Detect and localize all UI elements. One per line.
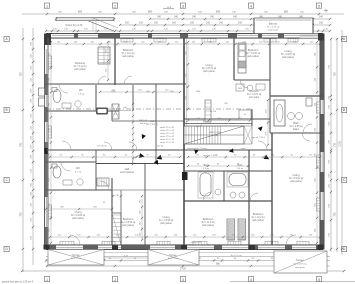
svg-text:Sn = 19.63 sq: Sn = 19.63 sq <box>71 215 86 217</box>
svg-text:2.9 sq: 2.9 sq <box>78 94 85 96</box>
svg-text:hall: hall <box>123 107 127 109</box>
svg-text:4: 4 <box>250 278 252 282</box>
svg-text:park parket: park parket <box>122 224 134 227</box>
svg-text:1: 1 <box>46 278 48 282</box>
svg-text:Sn = 14.07 sq: Sn = 14.07 sq <box>247 94 262 96</box>
svg-text:Sn = 5.12 sq: Sn = 5.12 sq <box>74 66 88 68</box>
svg-text:Sn = 4.55 sq: Sn = 4.55 sq <box>290 126 304 128</box>
svg-text:Bedroom: Bedroom <box>203 217 214 221</box>
svg-text:gres paint: gres paint <box>249 96 259 99</box>
svg-text:700: 700 <box>19 142 22 147</box>
svg-text:90 210: 90 210 <box>210 111 217 113</box>
svg-text:160: 160 <box>238 21 243 24</box>
svg-text:park parket: park parket <box>122 55 134 58</box>
svg-text:700: 700 <box>19 212 22 217</box>
svg-text:park parket: park parket <box>72 217 84 220</box>
svg-text:WM 5.04: WM 5.04 <box>139 120 148 122</box>
svg-text:park parket: park parket <box>203 70 215 73</box>
svg-text:Hall: Hall <box>125 167 130 171</box>
svg-text:Bedroom: Bedroom <box>253 212 264 216</box>
svg-text:700: 700 <box>334 142 337 147</box>
svg-text:Sn = 4.25 sq: Sn = 4.25 sq <box>267 27 280 29</box>
svg-text:Living: Living <box>206 63 213 67</box>
svg-text:Balcony: Balcony <box>269 23 278 26</box>
svg-text:park parket: park parket <box>252 219 264 222</box>
svg-text:340: 340 <box>319 15 324 18</box>
svg-text:stroke 17.5 x 29: stroke 17.5 x 29 <box>160 135 175 138</box>
svg-text:park parket: park parket <box>247 55 259 58</box>
svg-text:Sn = 11.75 sq: Sn = 11.75 sq <box>294 264 308 266</box>
svg-text:2100: 2100 <box>339 141 342 147</box>
svg-text:120 60: 120 60 <box>157 146 164 148</box>
svg-text:B: B <box>343 108 345 112</box>
svg-text:WM: WM <box>238 88 242 90</box>
svg-text:stroke 17.5 x 29: stroke 17.5 x 29 <box>160 126 175 129</box>
svg-text:Hall +1.46: Hall +1.46 <box>191 242 202 244</box>
svg-text:park parket: park parket <box>202 224 214 227</box>
svg-text:Bedroom: Bedroom <box>123 48 134 52</box>
svg-text:Sn = 12.97 sq: Sn = 12.97 sq <box>246 53 261 55</box>
svg-text:Sn = 7.3 sq: Sn = 7.3 sq <box>168 258 179 260</box>
svg-text:5: 5 <box>318 4 320 8</box>
svg-text:160: 160 <box>206 21 211 24</box>
svg-text:340: 340 <box>157 15 162 18</box>
svg-text:Living: Living <box>163 215 170 219</box>
svg-text:balustrade fin. 70 max: balustrade fin. 70 max <box>187 147 207 150</box>
svg-text:700: 700 <box>334 212 337 217</box>
svg-text:Kitchen: Kitchen <box>250 89 259 93</box>
svg-text:700: 700 <box>19 72 22 77</box>
svg-text:Sn = 4.1 sq: Sn = 4.1 sq <box>146 124 158 126</box>
svg-text:680: 680 <box>148 9 153 13</box>
svg-text:340: 340 <box>233 15 238 18</box>
svg-text:a 1: a 1 <box>167 5 171 9</box>
svg-text:Sn = 12.4 sq: Sn = 12.4 sq <box>122 53 136 55</box>
svg-text:90 210 90: 90 210 90 <box>98 146 108 148</box>
svg-text:Sn = 7.2 sq: Sn = 7.2 sq <box>71 258 82 260</box>
svg-text:160: 160 <box>190 21 195 24</box>
svg-text:WC: WC <box>79 89 83 92</box>
svg-text:340: 340 <box>210 15 215 18</box>
svg-text:3.4 sq: 3.4 sq <box>237 168 244 170</box>
svg-text:Sn = 11.9 sq: Sn = 11.9 sq <box>202 222 216 224</box>
svg-text:340: 340 <box>174 15 179 18</box>
svg-text:Living: Living <box>285 49 292 53</box>
svg-text:Ramp Sn +0.46: Ramp Sn +0.46 <box>66 24 83 27</box>
svg-text:700: 700 <box>334 72 337 77</box>
svg-text:faians: faians <box>293 129 300 131</box>
svg-text:Living: Living <box>293 173 300 177</box>
svg-text:WC: WC <box>76 167 80 170</box>
svg-text:park parket: park parket <box>290 180 302 183</box>
svg-text:+1.46: +1.46 <box>212 135 218 137</box>
svg-text:680: 680 <box>284 9 289 13</box>
svg-text:5: 5 <box>318 278 320 282</box>
svg-text:Sn = 19.91 sq: Sn = 19.91 sq <box>289 178 304 180</box>
svg-text:Dressing: Dressing <box>75 61 86 65</box>
svg-text:160: 160 <box>139 21 144 24</box>
svg-text:4: 4 <box>250 4 252 8</box>
svg-text:MID FLOOR: MID FLOOR <box>209 132 222 134</box>
svg-text:stroke 17.5 x 29: stroke 17.5 x 29 <box>160 132 175 135</box>
svg-text:B: B <box>6 108 8 112</box>
svg-text:160: 160 <box>219 21 224 24</box>
svg-text:160: 160 <box>172 21 177 24</box>
svg-text:160: 160 <box>154 21 159 24</box>
svg-text:2.9 sq: 2.9 sq <box>203 168 210 170</box>
svg-text:Sn = 5.1 sq: Sn = 5.1 sq <box>231 255 242 257</box>
svg-text:Bedroom: Bedroom <box>123 217 134 221</box>
svg-text:Terrace: Terrace <box>296 259 304 262</box>
svg-text:park parket: park parket <box>160 222 172 225</box>
svg-text:Sn = 24.07 sq: Sn = 24.07 sq <box>281 54 296 56</box>
svg-text:160: 160 <box>319 21 324 24</box>
svg-text:Terrace: Terrace <box>169 254 177 257</box>
svg-text:680: 680 <box>216 9 221 13</box>
svg-text:Bath: Bath <box>293 121 299 125</box>
svg-text:340: 340 <box>192 15 197 18</box>
svg-text:Terrace: Terrace <box>72 254 80 257</box>
svg-text:stroke 17.5 x 29: stroke 17.5 x 29 <box>160 129 175 132</box>
svg-text:Sn = 12.2 sq: Sn = 12.2 sq <box>252 217 266 219</box>
svg-text:stroke 17.5 x 29: stroke 17.5 x 29 <box>160 141 175 144</box>
svg-text:3: 3 <box>182 4 184 8</box>
svg-text:appt str 7.31 d: appt str 7.31 d <box>251 136 265 139</box>
svg-text:Sn = 15.43 sq: Sn = 15.43 sq <box>159 220 174 222</box>
svg-text:Hall: Hall <box>150 119 155 123</box>
svg-text:680: 680 <box>78 9 83 13</box>
svg-text:2: 2 <box>114 4 116 8</box>
svg-text:680: 680 <box>216 262 221 265</box>
svg-text:Sn = 13.62 sq: Sn = 13.62 sq <box>121 222 136 224</box>
svg-text:park parket: park parket <box>282 56 294 59</box>
svg-text:1: 1 <box>46 4 48 8</box>
svg-text:park parket: park parket <box>74 68 86 71</box>
svg-text:160: 160 <box>125 21 130 24</box>
svg-text:2720: 2720 <box>180 266 186 270</box>
svg-text:wood parquet: wood parquet <box>120 171 134 174</box>
svg-text:tread: tread <box>241 147 246 150</box>
svg-text:Living: Living <box>75 210 82 214</box>
svg-text:Sn = 26.71 sq: Sn = 26.71 sq <box>202 68 217 70</box>
svg-text:3: 3 <box>182 278 184 282</box>
svg-text:Bedroom: Bedroom <box>248 48 259 52</box>
svg-text:2: 2 <box>114 278 116 282</box>
svg-text:gres paint: gres paint <box>295 266 305 269</box>
svg-text:wash paint: wash paint <box>268 28 279 31</box>
svg-text:3.1 sq: 3.1 sq <box>75 172 82 174</box>
svg-text:wood parquet: wood parquet <box>119 109 132 112</box>
svg-text:stroke 17.5 x 29: stroke 17.5 x 29 <box>160 138 175 141</box>
svg-text:ground floor plan sc 1:50 re: ground floor plan sc 1:50 rev A <box>2 281 34 284</box>
